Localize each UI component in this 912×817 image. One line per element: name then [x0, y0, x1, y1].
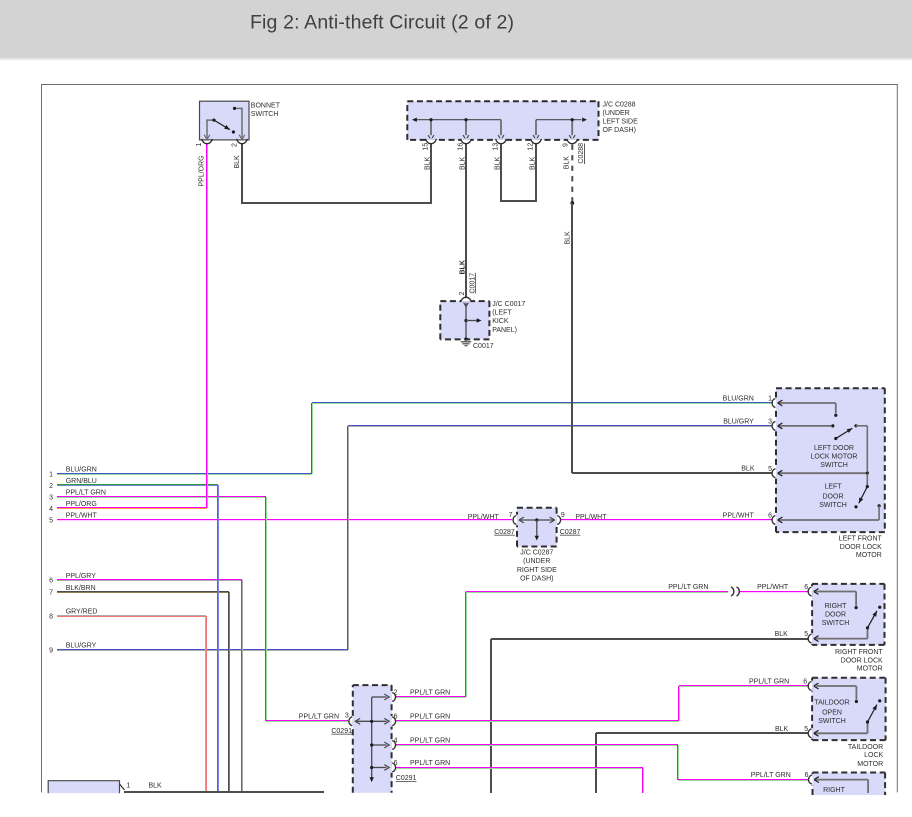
- pin 2: [392, 692, 394, 703]
- pin 9: [557, 515, 559, 526]
- svg-text:GRN/BLU: GRN/BLU: [66, 478, 97, 485]
- svg-text:C0287: C0287: [560, 529, 581, 536]
- svg-text:SWITCH: SWITCH: [251, 111, 279, 118]
- svg-text:BLK: BLK: [234, 155, 241, 169]
- junction connector J/C C0288: [407, 101, 598, 140]
- svg-text:BLK: BLK: [565, 231, 572, 245]
- wire BLU/GRY row 9: [57, 649, 348, 650]
- pin 5: [774, 468, 776, 479]
- svg-text:6: 6: [49, 578, 53, 585]
- inline connector C: [731, 587, 734, 596]
- svg-text:Fig 2: Anti-theft Circuit (2 o: Fig 2: Anti-theft Circuit (2 of 2): [250, 11, 514, 33]
- internal wire pin 1: [777, 402, 836, 404]
- wire BLK dashed from J/C C0288 pin 9: [571, 145, 573, 204]
- wire BLK from splice down to left door lock pin 5: [571, 203, 573, 473]
- svg-text:RIGHT SIDE: RIGHT SIDE: [517, 567, 557, 574]
- svg-text:12: 12: [528, 143, 535, 151]
- svg-text:5: 5: [49, 517, 53, 524]
- wire PPL/LT GRN row 3: [57, 496, 266, 497]
- svg-text:BLK: BLK: [424, 156, 431, 170]
- pin 4: [392, 740, 394, 751]
- svg-text:(UNDER: (UNDER: [523, 558, 550, 565]
- svg-text:6: 6: [394, 714, 398, 721]
- svg-text:BLK: BLK: [149, 783, 163, 790]
- svg-text:PPL/WHT: PPL/WHT: [757, 584, 789, 591]
- J/C C0017 internals: [465, 301, 467, 339]
- svg-text:PPL/WHT: PPL/WHT: [66, 513, 98, 520]
- junction connector J/C C0017: [440, 301, 489, 339]
- internal wire pin 3: [777, 425, 831, 427]
- svg-text:(UNDER: (UNDER: [603, 110, 630, 117]
- svg-text:LEFT FRONT: LEFT FRONT: [839, 536, 883, 543]
- svg-text:PPL/WHT: PPL/WHT: [575, 514, 607, 521]
- svg-text:6: 6: [804, 584, 808, 591]
- svg-text:2: 2: [232, 143, 239, 147]
- pin 5: [811, 633, 813, 644]
- svg-text:6: 6: [803, 679, 807, 686]
- svg-text:4: 4: [394, 737, 398, 744]
- wire PPL/LT GRN C0291 lower pin 6 down: [396, 767, 643, 768]
- ground: [465, 339, 467, 341]
- svg-text:1: 1: [127, 783, 131, 790]
- svg-text:BLK/BRN: BLK/BRN: [66, 585, 96, 592]
- svg-text:C0017: C0017: [473, 343, 494, 350]
- wire PPL/WHT inline connector to right door switch pin 6: [740, 591, 808, 592]
- pin 6 lower: [392, 762, 394, 773]
- svg-text:RIGHT FRONT: RIGHT FRONT: [835, 649, 883, 656]
- wire BLK bonnet switch pin 2 to J/C C0288 pin 15: [241, 144, 243, 203]
- svg-text:LEFT: LEFT: [824, 483, 842, 490]
- internal wire pin 6: [813, 591, 856, 593]
- pin 15: [426, 140, 437, 142]
- wire PPL/ORG vertical to bonnet switch pin 1: [206, 144, 207, 508]
- svg-text:RIGHT: RIGHT: [825, 603, 848, 610]
- svg-text:C0291: C0291: [396, 775, 417, 782]
- wire GRN/BLU vertical: [217, 485, 218, 793]
- svg-text:PPL/LT GRN: PPL/LT GRN: [410, 760, 450, 767]
- wire PPL/GRY vertical: [241, 580, 242, 793]
- svg-text:BLK: BLK: [775, 726, 789, 733]
- wire BLK J/C C0288 pin 16 down to J/C C0017: [465, 144, 467, 297]
- svg-text:DOOR: DOOR: [825, 611, 846, 618]
- lock motor switch arm: [834, 437, 837, 440]
- header title bar: [0, 0, 912, 57]
- svg-text:OF DASH): OF DASH): [603, 127, 636, 134]
- wire PPL/GRY row 6: [57, 579, 242, 580]
- bottom clip: [43, 795, 897, 812]
- node splice dot: [570, 201, 574, 205]
- svg-text:3: 3: [345, 712, 349, 719]
- svg-text:OF DASH): OF DASH): [520, 575, 553, 582]
- pin 6: [811, 586, 813, 597]
- pin 3: [351, 716, 353, 727]
- switch arm: [868, 611, 877, 628]
- svg-text:SWITCH: SWITCH: [819, 502, 847, 509]
- wire BLK/BRN vertical: [228, 592, 229, 793]
- svg-text:BLK: BLK: [741, 466, 755, 473]
- svg-text:9: 9: [49, 648, 53, 655]
- svg-text:PPL/LT GRN: PPL/LT GRN: [410, 737, 450, 744]
- wire GRY/RED vertical: [205, 616, 206, 793]
- wire PPL/WHT run to J/C C0287 pin 7 and on to pin 6: [561, 519, 772, 520]
- svg-text:TAILDOOR: TAILDOOR: [814, 700, 849, 707]
- internal wire pin 5: [813, 638, 867, 640]
- svg-text:PPL/WHT: PPL/WHT: [468, 514, 500, 521]
- svg-text:J/C C0288: J/C C0288: [603, 102, 636, 109]
- wire PPL/ORG row 4: [57, 507, 207, 508]
- wire BLK right door switch pin 5: [491, 638, 808, 640]
- svg-text:BLK: BLK: [775, 631, 789, 638]
- svg-text:MOTOR: MOTOR: [857, 666, 883, 673]
- svg-text:4: 4: [49, 506, 53, 513]
- bonnet switch internals: [206, 120, 208, 139]
- pin 6: [811, 681, 813, 692]
- svg-text:SWITCH: SWITCH: [822, 620, 850, 627]
- pin 3: [774, 421, 776, 432]
- switch arm: [214, 120, 230, 130]
- svg-text:C0287: C0287: [494, 529, 515, 536]
- svg-text:KICK: KICK: [492, 318, 509, 325]
- pin 7: [515, 515, 517, 526]
- svg-text:BLU/GRN: BLU/GRN: [723, 396, 754, 403]
- bonnet switch: [200, 101, 250, 140]
- pin 2 top: [461, 300, 472, 302]
- svg-text:TAILDOOR: TAILDOOR: [848, 744, 883, 751]
- svg-text:BONNET: BONNET: [251, 103, 281, 110]
- pin 5: [811, 728, 813, 739]
- svg-text:C0291: C0291: [331, 728, 352, 735]
- svg-text:6: 6: [394, 760, 398, 767]
- internal wire pin 5: [777, 472, 867, 474]
- door switch arm: [866, 473, 868, 486]
- svg-text:PPL/WHT: PPL/WHT: [723, 513, 755, 520]
- wire PPL/WHT row 5: [57, 519, 512, 520]
- wire BLK bottom-left module pin 1: [124, 791, 324, 793]
- svg-text:(LEFT: (LEFT: [492, 310, 512, 317]
- right front door lock motor block: [812, 584, 884, 645]
- svg-text:2: 2: [49, 483, 53, 490]
- svg-text:BLU/GRY: BLU/GRY: [723, 418, 754, 425]
- svg-text:BLU/GRN: BLU/GRN: [66, 467, 97, 474]
- svg-text:BLK: BLK: [459, 260, 466, 274]
- svg-text:PANEL): PANEL): [492, 327, 517, 334]
- pin 2: [237, 139, 248, 144]
- svg-text:9: 9: [561, 512, 565, 519]
- svg-text:LEFT SIDE: LEFT SIDE: [603, 119, 639, 126]
- svg-text:C0017: C0017: [469, 273, 476, 294]
- svg-text:1: 1: [768, 396, 772, 403]
- pin 12: [531, 140, 542, 142]
- svg-text:7: 7: [49, 590, 53, 597]
- svg-text:DOOR LOCK: DOOR LOCK: [841, 657, 883, 664]
- wire PPL/LT GRN C0291 pin 6 to taildoor open switch pin 6: [396, 720, 679, 721]
- svg-text:6: 6: [768, 513, 772, 520]
- svg-text:3: 3: [768, 419, 772, 426]
- pin 6: [811, 774, 813, 785]
- svg-text:15: 15: [423, 143, 430, 151]
- svg-text:BLU/GRY: BLU/GRY: [66, 643, 97, 650]
- wire BLU/GRN vertical + run to pin 1: [311, 403, 312, 474]
- pin 16: [461, 140, 472, 142]
- svg-text:PPL/LT GRN: PPL/LT GRN: [668, 584, 708, 591]
- svg-text:5: 5: [804, 726, 808, 733]
- pin 6: [774, 515, 776, 526]
- wire BLU/GRN row 1: [57, 473, 312, 474]
- svg-text:PPL/ORG: PPL/ORG: [199, 155, 206, 186]
- svg-text:7: 7: [509, 512, 513, 519]
- wire PPL/LT GRN row3 vertical + run to C0291 pin 3: [265, 497, 266, 721]
- C0291 internals: [371, 697, 373, 778]
- internal wire pin 6: [814, 779, 869, 781]
- svg-text:SWITCH: SWITCH: [818, 718, 846, 725]
- wire PPL/LT GRN C0291 pin 2 to inline connector: [396, 696, 466, 697]
- svg-text:SWITCH: SWITCH: [820, 462, 848, 469]
- wire GRY/RED row 8: [57, 615, 206, 616]
- svg-text:2: 2: [459, 292, 466, 296]
- svg-text:MOTOR: MOTOR: [856, 552, 882, 559]
- pin 1: [774, 398, 776, 409]
- junction connector J/C C0287: [517, 508, 557, 547]
- svg-text:PPL/ORG: PPL/ORG: [66, 501, 97, 508]
- internal wire pin 5: [813, 732, 867, 734]
- svg-text:PPL/LT GRN: PPL/LT GRN: [66, 490, 106, 497]
- wire BLK J/C C0288 pin 13 to pin 12 loop: [500, 144, 502, 201]
- svg-text:BLK: BLK: [563, 156, 570, 170]
- svg-text:PPL/LT GRN: PPL/LT GRN: [410, 689, 450, 696]
- internal wire pin 6: [816, 685, 856, 687]
- bottom-left module (clipped): [48, 781, 119, 794]
- left front door lock motor block: [776, 388, 885, 532]
- wire BLU/GRY vertical + run to pin 3: [347, 426, 348, 650]
- J/C C0288 internals: [417, 119, 502, 121]
- pin 1: [202, 139, 213, 144]
- svg-text:DOOR LOCK: DOOR LOCK: [840, 544, 882, 551]
- svg-text:LEFT DOOR: LEFT DOOR: [814, 445, 854, 452]
- svg-text:BLK: BLK: [459, 156, 466, 170]
- svg-text:3: 3: [49, 494, 53, 501]
- svg-text:MOTOR: MOTOR: [857, 761, 883, 768]
- svg-text:RIGHT: RIGHT: [823, 787, 846, 794]
- svg-text:OPEN: OPEN: [822, 710, 842, 717]
- svg-text:13: 13: [493, 143, 500, 151]
- pin 13: [496, 140, 507, 142]
- svg-text:BLK: BLK: [494, 156, 501, 170]
- svg-text:LOCK MOTOR: LOCK MOTOR: [811, 454, 858, 461]
- svg-text:6: 6: [805, 772, 809, 779]
- svg-text:GRY/RED: GRY/RED: [66, 609, 98, 616]
- wire PPL/LT GRN C0291 pin 4 to right rear block pin 6: [396, 744, 678, 745]
- svg-text:2: 2: [394, 689, 398, 696]
- svg-text:9: 9: [563, 143, 570, 147]
- J/C C0287 internals: [520, 519, 555, 521]
- svg-text:PPL/GRY: PPL/GRY: [66, 573, 97, 580]
- svg-text:LOCK: LOCK: [864, 752, 883, 759]
- pin 9: [567, 140, 578, 142]
- svg-text:PPL/LT GRN: PPL/LT GRN: [751, 772, 791, 779]
- svg-text:1: 1: [196, 143, 203, 147]
- svg-text:16: 16: [458, 143, 465, 151]
- svg-text:DOOR: DOOR: [823, 494, 844, 501]
- svg-text:C0288: C0288: [578, 143, 585, 164]
- svg-text:PPL/LT GRN: PPL/LT GRN: [749, 679, 789, 686]
- connector C0291: [353, 685, 392, 793]
- wire BLK/BRN row 7: [57, 591, 229, 592]
- pin 6: [392, 716, 394, 727]
- wire BLK taildoor lock pin 5: [596, 732, 808, 734]
- svg-text:PPL/LT GRN: PPL/LT GRN: [299, 713, 339, 720]
- svg-text:8: 8: [49, 613, 53, 620]
- wire GRN/BLU row 2: [57, 484, 218, 485]
- taildoor lock motor block: [812, 678, 886, 740]
- switch arm: [868, 705, 877, 722]
- right rear door lock motor block (clipped): [813, 773, 886, 796]
- svg-text:J/C C0287: J/C C0287: [520, 550, 553, 557]
- svg-text:J/C C0017: J/C C0017: [492, 301, 525, 308]
- svg-text:PPL/LT GRN: PPL/LT GRN: [410, 714, 450, 721]
- svg-text:1: 1: [49, 471, 53, 478]
- pin 1 tick: [120, 784, 125, 790]
- svg-text:5: 5: [768, 466, 772, 473]
- svg-text:5: 5: [804, 631, 808, 638]
- svg-text:BLK: BLK: [529, 156, 536, 170]
